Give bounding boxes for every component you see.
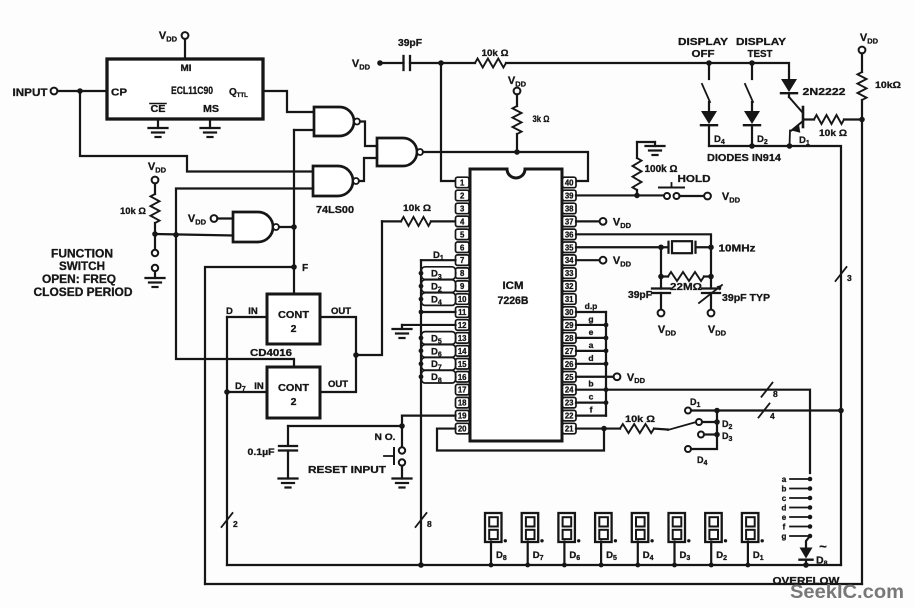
svg-text:5: 5 <box>460 230 465 239</box>
wire bottom rail <box>205 583 862 585</box>
svg-text:g: g <box>588 314 593 324</box>
segment label c <box>589 392 594 402</box>
node: pin 20/21 junction <box>601 426 607 432</box>
contact D2 of digit select <box>696 419 733 431</box>
label D7 IN (CONT2 input) <box>235 381 264 393</box>
R1 value label 10k&#937; <box>120 206 146 217</box>
svg-text:b: b <box>782 485 787 494</box>
wire CONT1 input <box>227 316 267 318</box>
svg-text:36: 36 <box>565 230 574 239</box>
Y1 value label 10MHz <box>719 242 756 254</box>
svg-text:a: a <box>589 340 594 350</box>
svg-text:3: 3 <box>847 273 852 283</box>
svg-text:CLOSED PERIOD: CLOSED PERIOD <box>34 287 133 299</box>
node: display test branch <box>749 60 755 66</box>
wire rail to DISPLAY TEST switch <box>709 62 752 64</box>
svg-text:16: 16 <box>458 373 467 382</box>
svg-text:b: b <box>588 379 593 389</box>
svg-text:RESET INPUT: RESET INPUT <box>308 464 387 476</box>
node: D7 junction <box>224 389 230 395</box>
segment label d.p <box>585 301 598 311</box>
wire diode rail to 3-wire bus <box>790 146 842 565</box>
resistor R3 3k <box>513 94 522 152</box>
svg-text:12: 12 <box>458 321 467 330</box>
wire contact D1 to 4-wire line <box>691 409 717 411</box>
label D8 (display) <box>496 550 507 562</box>
svg-text:e: e <box>589 327 594 337</box>
digit select switch arm <box>668 423 695 430</box>
svg-text:1: 1 <box>460 179 465 188</box>
svg-text:~: ~ <box>819 539 827 554</box>
svg-text:11: 11 <box>458 308 467 317</box>
svg-text:ECL11C90: ECL11C90 <box>171 85 213 97</box>
svg-text:10MHz: 10MHz <box>719 242 756 254</box>
wire digit D4 to digit bus <box>637 542 639 566</box>
node: NAND D output junction <box>291 224 297 230</box>
svg-text:TEST: TEST <box>748 48 774 60</box>
svg-text:OUT: OUT <box>331 306 351 317</box>
svg-text:HOLD: HOLD <box>678 173 711 185</box>
node: D1 bottom <box>787 143 793 149</box>
INPUT label <box>13 87 48 99</box>
svg-text:19: 19 <box>458 412 467 421</box>
digit line label D3 at ICM pin 8 <box>421 267 456 281</box>
svg-text:INPUT: INPUT <box>13 87 48 99</box>
svg-text:f: f <box>590 405 593 415</box>
node: digit bus / D line junction <box>418 562 424 568</box>
wire digit D7 to digit bus <box>527 542 529 566</box>
IC U1 ECL11C90 prescaler box <box>107 59 263 119</box>
node F <box>291 263 308 274</box>
svg-text:CP: CP <box>111 87 127 99</box>
svg-text:2: 2 <box>233 519 238 529</box>
node: reset junction <box>399 423 405 429</box>
seven-segment display digit D2 <box>705 513 727 543</box>
svg-text:MI: MI <box>181 63 192 73</box>
power VDD terminal at HOLD <box>704 191 741 204</box>
wire VDD rail down <box>861 120 863 585</box>
wire CONT outputs to resistor R4 <box>356 221 382 355</box>
node: digit D5 bus junction <box>599 563 604 568</box>
wire VDD terminal to NAND D input <box>217 217 233 219</box>
C1 value label 39pF <box>398 38 422 49</box>
capacitor C2 0.1uF <box>279 446 297 451</box>
wire input junction down to NAND gate B <box>80 91 313 172</box>
wire NAND A output to NAND C input <box>360 122 377 147</box>
diode D4 IN914 <box>701 102 717 146</box>
trimmer capacitor C4 39pF <box>699 277 722 304</box>
R3 value label 3k&#937; <box>533 114 550 125</box>
svg-text:39: 39 <box>565 191 574 200</box>
contact D4 of digit select <box>685 446 708 467</box>
wire ICM pin 36 to crystal <box>576 234 711 247</box>
svg-text:23: 23 <box>565 399 574 408</box>
svg-text:9: 9 <box>460 282 465 291</box>
svg-text:28: 28 <box>565 334 574 343</box>
node: display off branch <box>706 60 712 66</box>
wire crystal left to 22M <box>660 247 662 276</box>
svg-text:10k Ω: 10k Ω <box>625 414 655 425</box>
wire CONT1 output <box>320 317 356 355</box>
svg-text:10k Ω: 10k Ω <box>819 128 847 139</box>
svg-text:DISPLAY: DISPLAY <box>736 36 786 48</box>
wire C3 to VDD <box>660 293 662 310</box>
diode D3 series (to 2N2222) <box>781 79 797 97</box>
R6 value label 22M&#937; <box>670 281 702 293</box>
label N O (normally open) <box>375 432 396 443</box>
wire NAND B output to NAND C input <box>359 158 377 181</box>
svg-text:24: 24 <box>565 386 574 395</box>
power VDD terminal below C3 <box>658 310 677 338</box>
Q1 label 2N2222 <box>803 86 846 98</box>
svg-text:21: 21 <box>565 425 574 434</box>
R9 value label 10k&#937; <box>819 128 847 139</box>
svg-text:FUNCTION: FUNCTION <box>51 249 113 261</box>
node: right bus junction <box>838 408 844 414</box>
contact D3 of digit select <box>698 431 733 443</box>
R4 value label 10k&#937; <box>403 203 431 214</box>
wire ICM pin 29 (segment g) <box>576 324 606 326</box>
wire digit D3 to digit bus <box>673 542 675 566</box>
bus slash /2 <box>222 513 239 529</box>
wire HOLD switch to VDD <box>680 195 705 197</box>
node: function line tap <box>173 232 179 238</box>
digit line label D8 at ICM pin 16 <box>421 370 456 384</box>
wire ICM pin 37 to VDD <box>576 220 600 222</box>
node: select bus D2 <box>714 419 720 425</box>
node: digit bus junction pin 10 <box>419 297 424 302</box>
ground at U1 CE pin <box>149 119 168 137</box>
seven-segment display digit D8 <box>485 513 507 543</box>
svg-text:D: D <box>226 306 233 317</box>
switch U3a CONT box (CD4016) <box>267 294 320 344</box>
wire NAND D output down to node F <box>293 227 295 267</box>
svg-text:40: 40 <box>565 179 574 188</box>
wire node F to CONT1 control <box>293 267 295 294</box>
segment label f <box>590 405 593 415</box>
svg-text:ICM: ICM <box>503 280 524 292</box>
wire digit D8 to digit bus <box>490 542 492 566</box>
label D5 (display) <box>606 550 617 562</box>
svg-text:30: 30 <box>565 308 574 317</box>
U2 pin number boxes 1-40 <box>456 177 577 434</box>
node: digit bus junction pin 16 <box>419 374 424 379</box>
svg-text:20: 20 <box>458 425 467 434</box>
svg-text:DISPLAY: DISPLAY <box>678 36 728 48</box>
svg-text:f: f <box>783 523 786 532</box>
resistor R7 10k (digit select) <box>604 424 668 433</box>
wire C1 to junction <box>410 62 441 64</box>
R5 value label 100k&#937; <box>645 164 678 175</box>
node: digit D2 bus junction <box>709 563 714 568</box>
wire digit bus vertical <box>420 260 422 565</box>
crystal Y1 10MHz <box>661 241 711 253</box>
node: segment bus junction pin 27 <box>604 348 609 353</box>
node: NAND C output / R3 junction <box>514 149 520 155</box>
wire ICM pin 35 to crystal <box>576 246 661 248</box>
node: crystal right <box>708 244 714 250</box>
digit line label D2 at ICM pin 9 <box>421 280 456 294</box>
segment label b <box>588 379 593 389</box>
svg-text:c: c <box>782 494 787 503</box>
node: 22M left junction <box>658 274 664 280</box>
node: select bus D3 <box>714 432 720 438</box>
label OUT (CONT2 output) <box>328 379 348 390</box>
svg-text:10k Ω: 10k Ω <box>482 48 509 59</box>
function switch S1 contacts <box>152 234 158 271</box>
node: digit bus junction pin 9 <box>419 284 424 289</box>
wire NAND D output to node F / NAND A input <box>279 130 314 227</box>
svg-text:37: 37 <box>565 217 574 226</box>
svg-text:OPEN: FREQ: OPEN: FREQ <box>42 274 116 286</box>
svg-text:14: 14 <box>458 347 467 356</box>
wire crystal right to 22M <box>710 247 712 276</box>
ground at R5 <box>637 142 665 155</box>
wire segment bus vertical <box>605 312 607 416</box>
bus slash /8 (segment lines) <box>762 383 779 399</box>
segment label g <box>588 314 593 324</box>
wire ICM pin 34 to VDD <box>576 259 600 261</box>
label D1 (digit line) <box>433 250 444 262</box>
wire ICM pin 30 (segment d.p) <box>576 311 606 313</box>
IC U2 ICM7226B body <box>470 169 562 441</box>
node: digit D7 bus junction <box>525 563 530 568</box>
resistor R8 10k (pull-up) <box>858 53 867 119</box>
label ~D8 (overflow digit) <box>816 539 828 568</box>
wire junction down to ICM pin 1 <box>441 63 456 181</box>
ground at function switch <box>146 271 165 287</box>
node: pin1 junction <box>438 60 444 66</box>
svg-text:6: 6 <box>460 243 465 252</box>
wire contact D2 <box>702 421 717 423</box>
node: digit bus junction pin 15 <box>419 361 424 366</box>
resistor R6 22M <box>661 272 711 281</box>
NAND gate B (74LS00) <box>313 166 359 196</box>
segment label a <box>589 340 594 350</box>
svg-text:d: d <box>782 504 787 513</box>
node: D2 bottom <box>749 143 755 149</box>
digit line label D4 at ICM pin 10 <box>421 293 456 307</box>
svg-text:MS: MS <box>203 103 219 115</box>
wire C4 to VDD <box>710 293 712 310</box>
node: digit D3 bus junction <box>672 563 677 568</box>
node: R8/R9 junction <box>859 117 865 123</box>
svg-text:d: d <box>588 353 593 363</box>
node: 100k junction <box>634 193 640 199</box>
node: digit D1 bus junction <box>746 563 751 568</box>
resistor R1 10k (function pull-up) <box>151 183 160 234</box>
svg-text:DIODES IN914: DIODES IN914 <box>707 152 781 164</box>
svg-text:IN: IN <box>248 306 258 317</box>
wire ICM pin 11 to digit bus <box>421 311 456 313</box>
ground at ICM pin 12 <box>393 325 456 338</box>
power VDD terminal at pin 34 <box>600 255 632 268</box>
wire U1 QTTL output to NAND gate A <box>263 91 314 112</box>
FUNCTION SWITCH caption <box>34 249 133 300</box>
wire reset node to capacitor C2 <box>288 426 402 444</box>
node: digit bus junction pin 8 <box>419 271 424 276</box>
svg-text:2: 2 <box>460 191 465 200</box>
C2 value label 0.1uF <box>248 447 275 458</box>
label D7 (display) <box>533 550 544 562</box>
label D3 (display) <box>680 550 691 562</box>
svg-text:39pF: 39pF <box>398 38 422 49</box>
DISPLAY OFF label <box>678 36 728 60</box>
NAND gate C (74LS00) <box>377 138 423 166</box>
74LS00 label <box>316 204 354 216</box>
U1 pin label MS <box>203 103 219 115</box>
svg-text:d.p: d.p <box>585 301 598 311</box>
INPUT terminal <box>51 88 58 95</box>
watermark SeekIC.com <box>790 582 904 603</box>
wire ICM pin 7 to digit bus <box>421 259 456 261</box>
overflow segment ladder a-g <box>782 475 813 541</box>
svg-text:e: e <box>782 513 787 522</box>
seven-segment display digit D6 <box>558 513 580 543</box>
power VDD terminal (3k pull-up) <box>508 75 527 94</box>
transistor Q1 2N2222 <box>789 97 803 146</box>
svg-text:32: 32 <box>565 282 574 291</box>
svg-text:SWITCH: SWITCH <box>59 261 105 273</box>
wire function line up to NAND B input <box>176 189 313 235</box>
wire function junction to NAND D input <box>155 234 233 236</box>
wire INPUT to U1 CP <box>58 90 108 92</box>
svg-text:10k Ω: 10k Ω <box>120 206 146 217</box>
wire digit D1 to digit bus <box>747 542 749 566</box>
wire CONT2 input <box>227 391 267 393</box>
digit line label D5 at ICM pin 13 <box>421 332 456 346</box>
svg-text:F: F <box>302 263 308 274</box>
svg-text:25: 25 <box>565 373 574 382</box>
svg-text:OUT: OUT <box>328 379 348 390</box>
wire ICM pin 39 to HOLD switch <box>576 194 664 196</box>
svg-text:8: 8 <box>427 519 432 529</box>
svg-text:27: 27 <box>565 347 574 356</box>
resistor R2 10k (to display-off rail) <box>441 59 709 68</box>
svg-text:31: 31 <box>565 295 574 304</box>
svg-text:OFF: OFF <box>692 48 716 60</box>
label D2 (display) <box>716 550 727 562</box>
node: segment bus junction pin 29 <box>604 323 609 328</box>
C3 value label 39pF <box>628 290 652 301</box>
bus slash /3 <box>836 267 853 283</box>
svg-text:39pF TYP: 39pF TYP <box>722 293 770 304</box>
svg-text:N O.: N O. <box>375 432 396 443</box>
seven-segment display digit D7 <box>522 513 544 543</box>
resistor R4 10k (to ICM pin 4) <box>382 217 456 226</box>
svg-text:17: 17 <box>458 386 467 395</box>
svg-text:39pF: 39pF <box>628 290 652 301</box>
seven-segment display digit D3 <box>669 513 691 543</box>
DISPLAY TEST label <box>736 36 786 60</box>
capacitor C1 39pF (input coupling) <box>404 56 411 70</box>
digit line label D6 at ICM pin 14 <box>421 345 456 359</box>
seven-segment display digit D1 <box>742 513 764 543</box>
digit line label D7 at ICM pin 15 <box>421 358 456 372</box>
wire diode common rail <box>709 145 790 147</box>
U1 pin label QTTL <box>229 87 248 99</box>
power VDD terminal at pin 37 <box>600 216 632 229</box>
wire ICM pin 25 to VDD <box>576 376 614 378</box>
resistor R5 100k (hold pull) <box>633 142 642 195</box>
wire ICM pin 20 to pin 21 <box>437 429 604 451</box>
LED D8 overflow <box>800 548 813 566</box>
svg-text:38: 38 <box>565 204 574 213</box>
node: digit bus junction pin 13 <box>419 336 424 341</box>
svg-text:8: 8 <box>773 389 778 399</box>
svg-text:2: 2 <box>291 396 297 408</box>
label D2 <box>757 134 768 146</box>
node: digit D4 bus junction <box>635 563 640 568</box>
svg-text:4: 4 <box>460 217 465 226</box>
U1 pin label MI <box>181 63 192 73</box>
node: segment bus junction pin 26 <box>604 361 609 366</box>
svg-text:c: c <box>589 392 594 402</box>
svg-text:22: 22 <box>565 412 574 421</box>
power VDD terminal (top right) <box>859 32 879 53</box>
ground at U1 MS pin <box>201 119 220 137</box>
svg-text:7226B: 7226B <box>498 295 529 307</box>
R2 value label 10k&#937; <box>482 48 509 59</box>
wire digit D5 to digit bus <box>600 542 602 566</box>
svg-text:13: 13 <box>458 334 467 343</box>
node: select bus D1 <box>714 408 720 414</box>
svg-text:CONT: CONT <box>278 309 310 321</box>
wire digit D6 to digit bus <box>563 542 565 566</box>
contact D1 of digit select <box>685 397 701 414</box>
power VDD terminal (function pull-up) <box>148 161 167 183</box>
power VDD terminal (prescaler supply) <box>159 30 188 59</box>
svg-text:33: 33 <box>565 269 574 278</box>
svg-text:74LS00: 74LS00 <box>316 204 354 216</box>
wire ICM pin 28 (segment e) <box>576 337 606 339</box>
power VDD terminal (input coupling) <box>352 58 383 71</box>
R8 value label 10k&#937; <box>875 80 901 91</box>
svg-text:0.1µF: 0.1µF <box>248 447 275 458</box>
svg-text:22MΩ: 22MΩ <box>670 281 702 293</box>
node: segment bus junction pin 28 <box>604 336 609 341</box>
DIODES IN914 label <box>707 152 781 164</box>
NAND gate D (74LS00) <box>233 212 279 242</box>
wire node F to bottom rail <box>205 267 294 584</box>
wire segment bus to overflow ladder <box>606 390 810 473</box>
wire NAND C output toward ICM7226B pin 40 <box>423 152 588 181</box>
wire display digit bus <box>227 564 841 566</box>
svg-text:8: 8 <box>460 269 465 278</box>
node: overflow LED junction <box>803 562 809 568</box>
svg-text:34: 34 <box>565 256 574 265</box>
power VDD at NAND D input <box>188 213 217 226</box>
label D4 (display) <box>643 550 654 562</box>
switch S5 DISPLAY TEST <box>745 63 753 102</box>
wire ladder to overflow LED <box>806 536 810 548</box>
svg-text:26: 26 <box>565 360 574 369</box>
capacitor C3 39pF <box>652 277 670 294</box>
label D6 (display) <box>569 550 580 562</box>
wire ICM pin 19 to reset node <box>402 416 456 426</box>
C4 value label 39pF TYP <box>722 293 770 304</box>
svg-text:10: 10 <box>458 295 467 304</box>
segment label e <box>589 327 594 337</box>
node: function switch junction <box>152 231 158 237</box>
svg-text:g: g <box>782 532 787 541</box>
wire VDD to capacitor C1 <box>380 62 404 64</box>
label D IN (CONT1 input) <box>226 306 258 317</box>
label OUT (CONT1 output) <box>331 306 351 317</box>
reset switch S2 contacts <box>384 426 405 466</box>
wire digit D2 to digit bus <box>710 542 712 566</box>
svg-text:7: 7 <box>460 256 464 265</box>
